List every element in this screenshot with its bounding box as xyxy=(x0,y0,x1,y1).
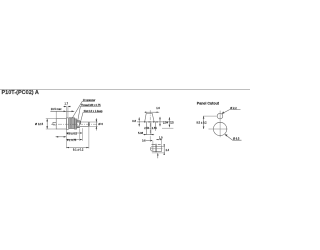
svg-text:4.6 ± 0.5: 4.6 ± 0.5 xyxy=(67,131,78,135)
ext verticals xyxy=(152,141,154,147)
centerline xyxy=(149,110,151,142)
washer 2 mid line xyxy=(75,119,77,129)
washer 2 xyxy=(74,119,76,129)
body rect xyxy=(56,119,66,130)
bottom dim 9.1 xyxy=(66,147,89,149)
bushing left edge xyxy=(76,119,78,128)
pin stubs xyxy=(145,122,147,135)
svg-text:Ø 6.5: Ø 6.5 xyxy=(233,137,240,141)
inner vertical xyxy=(152,146,154,151)
svg-text:0.6: 0.6 xyxy=(142,140,146,143)
ext verticals below body xyxy=(65,130,67,149)
main line arrowheads xyxy=(144,121,146,122)
leader dia 6.5 arrowhead xyxy=(225,134,228,136)
shaft slot xyxy=(88,122,89,126)
vdim 2.54 xyxy=(159,117,161,126)
ext verticals 1.7 xyxy=(65,106,67,118)
big circle xyxy=(213,122,226,135)
dim 1.7 arrows xyxy=(63,106,66,108)
svg-text:1.7: 1.7 xyxy=(65,101,69,105)
bottom dim arrows xyxy=(66,147,69,148)
vdim 9.5 xyxy=(203,116,205,129)
row1 arrows xyxy=(66,132,68,133)
svg-text:2.4: 2.4 xyxy=(166,149,170,152)
leader arrow cluster at bushing xyxy=(80,121,81,124)
svg-text:0.8: 0.8 xyxy=(132,119,136,123)
vdim 9.5 arrows xyxy=(203,116,205,119)
leader dia 6.5 xyxy=(225,134,242,140)
body trapezoid xyxy=(145,113,154,121)
svg-text:Panel Cutout: Panel Cutout xyxy=(197,102,220,106)
vdim 2.4 arrows xyxy=(163,144,165,146)
right ext horizontal xyxy=(162,127,173,129)
body left ext vertical xyxy=(55,112,57,119)
leader dia 2.2 xyxy=(222,110,241,114)
vdim 1.5 arrows xyxy=(169,117,171,119)
bottom tail arrow xyxy=(157,153,159,158)
ext line small circle xyxy=(203,115,217,117)
svg-text:Ø 12.5: Ø 12.5 xyxy=(35,122,44,126)
svg-text:Ø 6: Ø 6 xyxy=(99,122,104,126)
svg-text:2.54: 2.54 xyxy=(152,126,158,130)
dim dia 6 ext lines xyxy=(90,121,98,123)
vdim 0.8 arrows xyxy=(138,117,140,119)
svg-text:1.9: 1.9 xyxy=(159,136,163,139)
main line xyxy=(137,121,173,123)
vdim 2.4 xyxy=(163,144,165,154)
vertical centerline xyxy=(219,111,221,138)
svg-text:10.5 max: 10.5 max xyxy=(51,107,62,111)
svg-text:P10T-(PC02) A: P10T-(PC02) A xyxy=(2,90,39,96)
nut (10 spanner, hatched dark) xyxy=(69,118,74,129)
0.6 arrow dashes xyxy=(152,143,156,145)
dim dia 12.5 line xyxy=(46,119,48,129)
dim dia 6 arrows xyxy=(96,120,98,123)
dim dia 12.5 arrows xyxy=(46,119,48,122)
svg-text:2.54: 2.54 xyxy=(163,120,169,124)
midline xyxy=(151,148,163,150)
centerline xyxy=(51,123,99,125)
ext lines to 2.4 dim xyxy=(162,145,165,147)
svg-text:9.5 ± 0.2: 9.5 ± 0.2 xyxy=(197,120,208,124)
svg-text:5.08: 5.08 xyxy=(138,131,144,135)
pin dark band xyxy=(155,144,158,152)
nut hatch lines xyxy=(69,118,71,128)
vdim 1.5 xyxy=(168,117,170,127)
vdim left 0.8 xyxy=(138,117,140,126)
row2 arrows xyxy=(66,139,68,140)
dim 1.9 arrows xyxy=(156,139,158,140)
horizontal centerline xyxy=(209,128,228,130)
svg-text:2.54: 2.54 xyxy=(144,126,150,130)
lower dim arrows xyxy=(144,134,146,135)
svg-text:Ø 2.2: Ø 2.2 xyxy=(230,106,237,110)
dim dia 12.5 ext lines xyxy=(46,118,57,120)
svg-text:1.6: 1.6 xyxy=(156,106,160,110)
dim 10.5 arrows xyxy=(64,111,67,113)
svg-text:9.1 ± 0.2: 9.1 ± 0.2 xyxy=(73,148,84,152)
lower dim 5.08 xyxy=(143,134,154,136)
mid arrow line xyxy=(56,136,67,138)
dim dia 6 line xyxy=(95,118,97,130)
svg-text:1.5: 1.5 xyxy=(170,122,174,125)
thread marks xyxy=(77,121,79,123)
shaft xyxy=(80,122,90,126)
rear tab xyxy=(53,122,56,125)
dim 10.5 line xyxy=(50,110,74,112)
top dim arrows xyxy=(145,112,147,113)
dim 0.6 arrow xyxy=(151,140,153,141)
leader dia 2.2 arrowhead xyxy=(222,111,225,113)
threaded bushing xyxy=(77,121,80,128)
below-body dim row1 xyxy=(66,132,82,134)
part outline xyxy=(150,146,161,151)
washer (1.7) xyxy=(66,118,68,129)
small circle xyxy=(217,113,223,119)
vdim 2.54 arrows xyxy=(159,117,161,119)
svg-text:6 ± 0.75: 6 ± 0.75 xyxy=(67,138,77,142)
top rule xyxy=(0,89,250,91)
below-body dim row2 xyxy=(66,139,82,141)
